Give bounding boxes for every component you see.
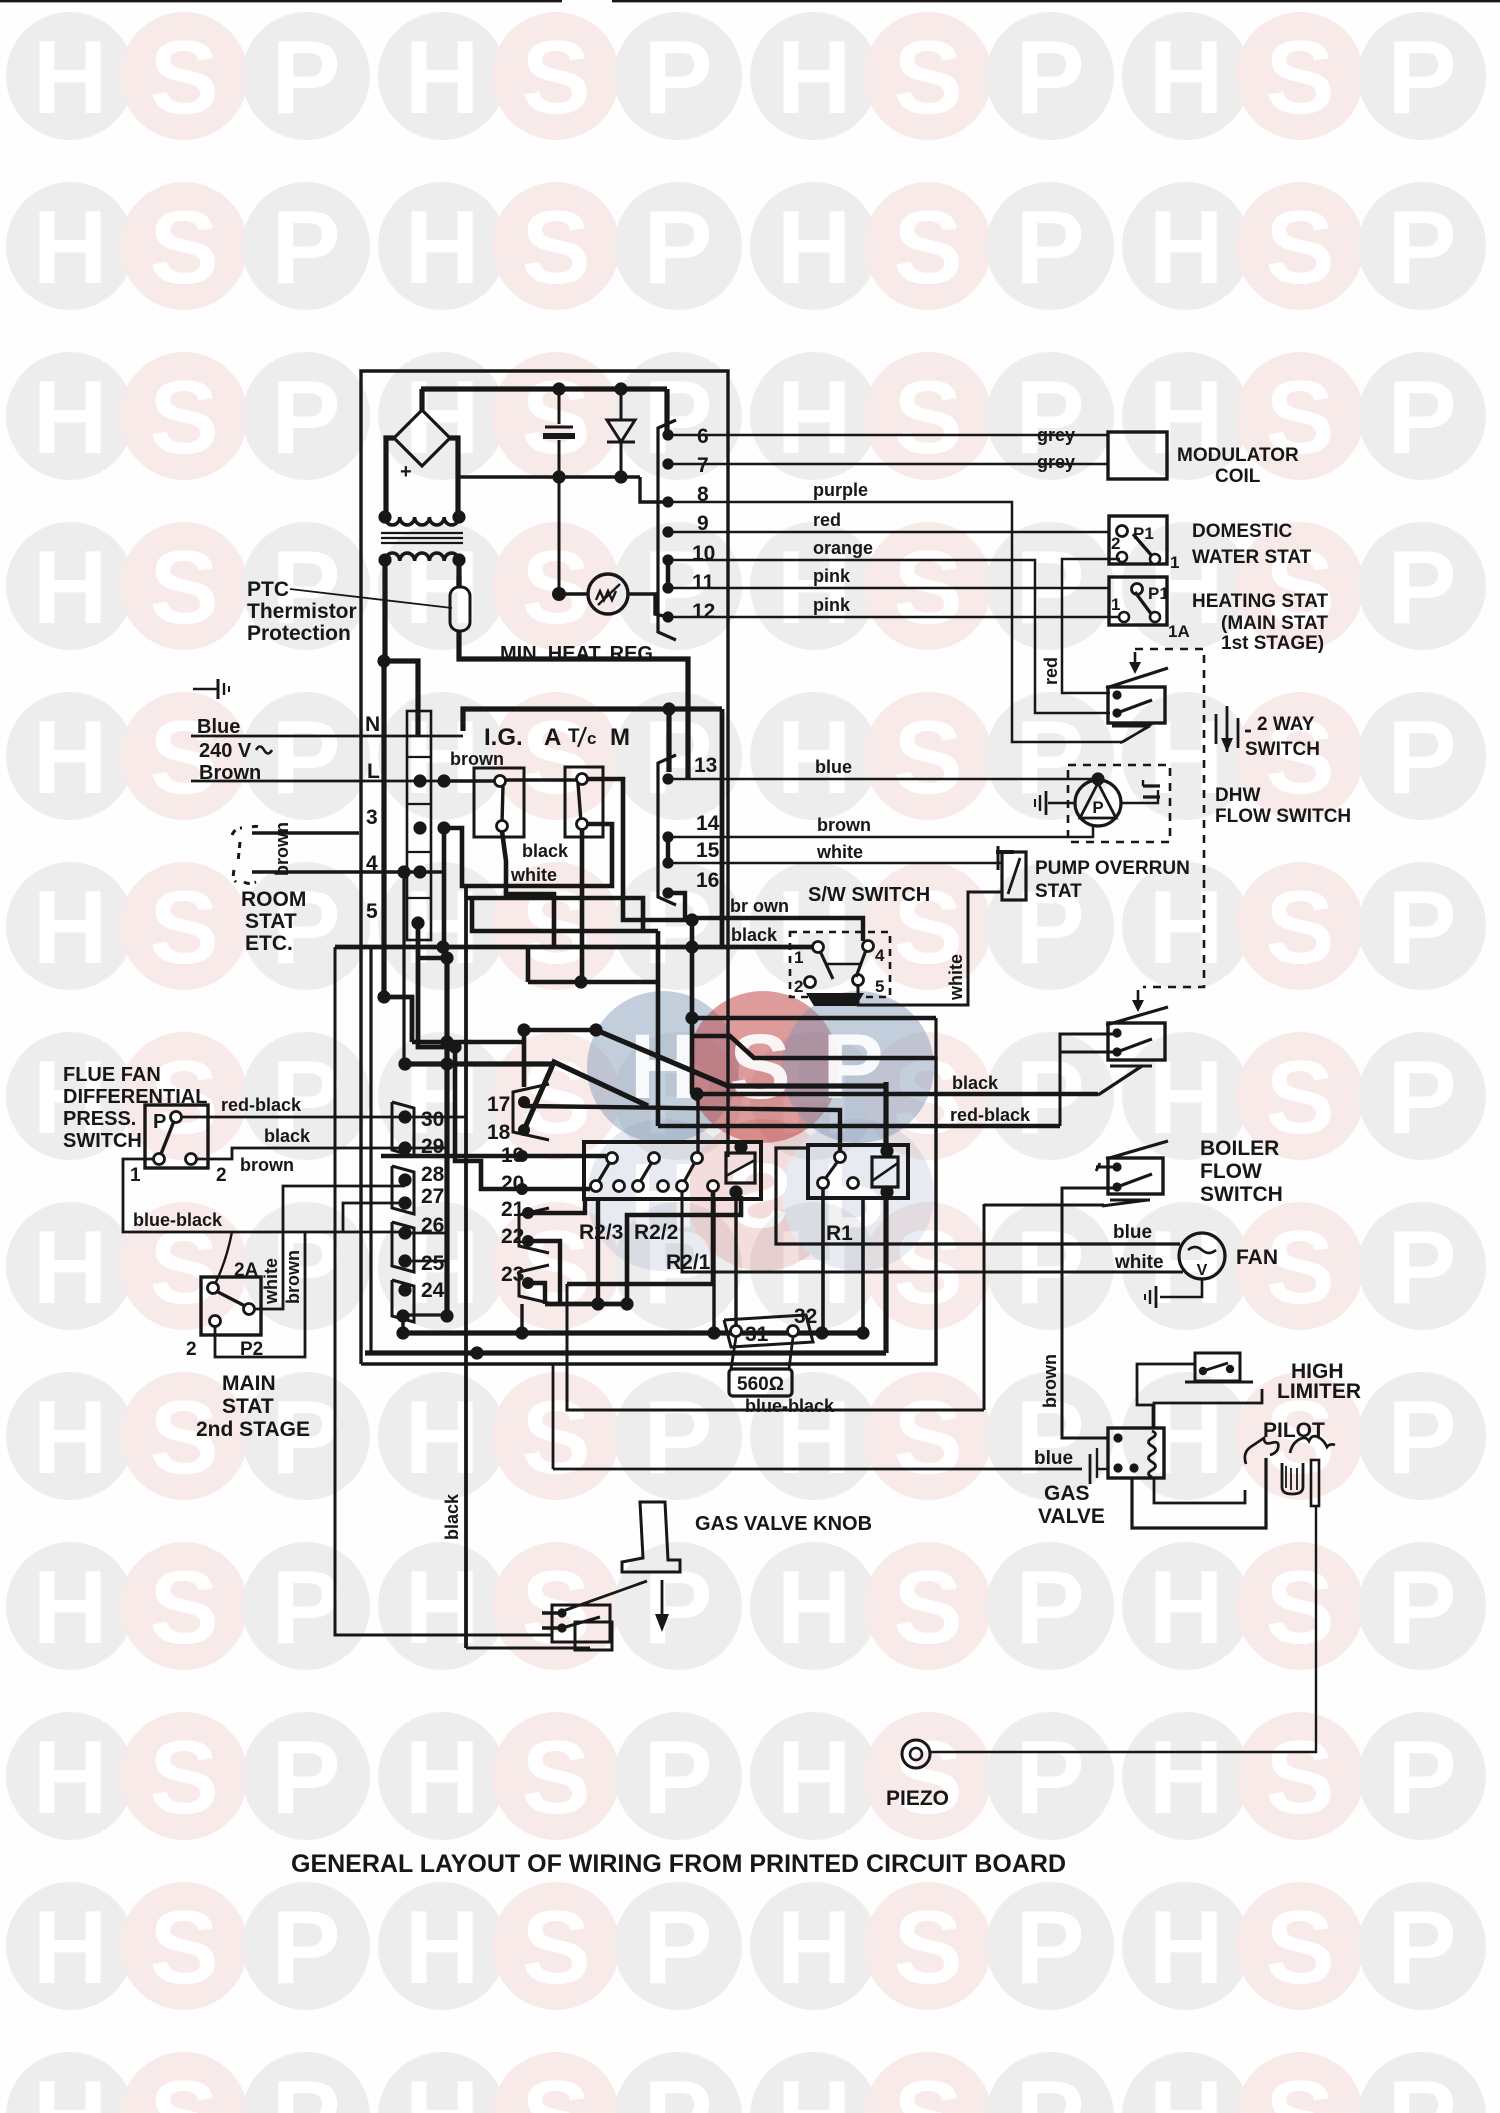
svg-text:23: 23	[501, 1263, 524, 1286]
svg-text:VALVE: VALVE	[1038, 1505, 1105, 1528]
wire R1 left contact drop	[821, 1188, 825, 1330]
svg-text:P: P	[271, 360, 340, 476]
wire riser x598	[596, 1199, 600, 1304]
svg-text:brown: brown	[272, 822, 292, 876]
node junction (621,389)	[614, 382, 627, 395]
svg-text:17: 17	[487, 1093, 510, 1116]
svg-text:27: 27	[421, 1185, 444, 1208]
pin 19 dot	[516, 1150, 528, 1162]
svg-text:DHW: DHW	[1215, 785, 1260, 806]
svg-text:P: P	[822, 1016, 883, 1118]
wire blue N input	[191, 735, 463, 738]
pin 32 circle	[788, 1326, 799, 1337]
node junction (559,594)	[552, 587, 566, 601]
wire pin19 row	[381, 1154, 606, 1158]
central HSP logo watermark	[587, 991, 934, 1271]
terminal strip	[407, 711, 431, 940]
wire grey pin7 to modulator	[672, 463, 1108, 466]
svg-text:STAT: STAT	[1035, 881, 1082, 902]
svg-text:M: M	[610, 724, 630, 751]
svg-text:H: H	[1148, 870, 1223, 986]
svg-text:H: H	[404, 1890, 479, 2006]
svg-text:1st STAGE): 1st STAGE)	[1221, 633, 1324, 654]
svg-text:560Ω: 560Ω	[737, 1374, 784, 1395]
svg-text:P: P	[643, 1550, 712, 1666]
wire coil R1 riser top	[883, 1082, 888, 1157]
wire red pin9 to stat	[672, 531, 1109, 534]
svg-text:240 V: 240 V	[199, 740, 252, 762]
wire thermocouple to piezo	[930, 1506, 1316, 1752]
pin 21 dot	[522, 1207, 534, 1219]
svg-text:BOILER: BOILER	[1200, 1137, 1279, 1160]
node junction (447,1316)	[440, 1309, 453, 1322]
node junction (477,1353)	[470, 1346, 483, 1359]
connector J3 pins 17-18 bracket	[513, 1084, 549, 1140]
svg-text:18: 18	[487, 1121, 511, 1144]
wire orange pin10	[672, 560, 1110, 713]
svg-text:H: H	[776, 20, 851, 136]
svg-text:P: P	[1387, 1380, 1456, 1496]
node junction (384,997)	[377, 990, 390, 1003]
svg-text:S: S	[149, 1890, 218, 2006]
pin 18 dot	[518, 1124, 530, 1136]
PTC label leader line	[290, 589, 452, 608]
wire diagonal D1	[596, 1030, 884, 1086]
svg-text:PRESS.: PRESS.	[63, 1108, 136, 1130]
node junction (447,958)	[440, 951, 453, 964]
wire row y1064 left	[405, 1061, 554, 1066]
svg-text:P: P	[1387, 190, 1456, 306]
node junction (524,1030)	[517, 1023, 530, 1036]
svg-text:10: 10	[692, 542, 715, 565]
node junction (598,1304)	[591, 1297, 604, 1310]
wire riser x528	[526, 947, 531, 982]
microswitch boiler flow	[1096, 1141, 1168, 1194]
wire high limiter left	[1137, 1364, 1195, 1428]
node junction (559,389)	[552, 382, 565, 395]
wire blue to fan	[776, 1148, 1180, 1244]
wire fan ground	[1160, 1279, 1202, 1297]
wire bus row y1353	[365, 1350, 886, 1355]
wire long drop x335	[335, 947, 552, 1635]
svg-text:brown: brown	[283, 1250, 303, 1304]
svg-text:S: S	[1265, 20, 1334, 136]
capacitor C1	[543, 389, 575, 594]
wire riser x984 to boiler flow	[983, 1204, 986, 1410]
svg-text:blue: blue	[1034, 1448, 1073, 1469]
svg-text:H: H	[32, 2060, 107, 2113]
wire blue riser x553	[552, 1364, 555, 1469]
node junction (447,1064)	[440, 1057, 453, 1070]
svg-text:H: H	[776, 190, 851, 306]
node junction (692,920)	[685, 913, 698, 926]
svg-text:S: S	[521, 1890, 590, 2006]
svg-text:S: S	[1265, 870, 1334, 986]
svg-text:H: H	[404, 190, 479, 306]
svg-text:13: 13	[694, 754, 717, 777]
pin 27 dot	[398, 1196, 411, 1209]
bridge rectifier	[394, 389, 450, 466]
svg-text:MIN. HEAT. REG.: MIN. HEAT. REG.	[500, 643, 659, 665]
wire row y898	[466, 898, 643, 931]
wire pin22 stub	[528, 1241, 560, 1304]
wire pin21 stub	[528, 1199, 585, 1213]
svg-text:PUMP OVERRUN: PUMP OVERRUN	[1035, 858, 1190, 879]
svg-text:H: H	[776, 360, 851, 476]
relay R1 contacts	[818, 1152, 859, 1189]
svg-text:2: 2	[794, 977, 803, 996]
wire to pin8	[640, 477, 668, 502]
wire x522 riser	[520, 1304, 523, 1333]
wire R2/1 top riser	[696, 1094, 699, 1152]
svg-text:14: 14	[696, 812, 720, 835]
wire black riser x722	[720, 709, 725, 947]
wire coil R1 drop	[883, 1192, 888, 1353]
pin 25 dot	[398, 1254, 411, 1267]
svg-text:P: P	[271, 1890, 340, 2006]
svg-text:P: P	[153, 1111, 166, 1133]
svg-text:I.G.: I.G.	[484, 724, 523, 751]
svg-text:H: H	[32, 360, 107, 476]
wire pin20 feed from term5	[455, 1047, 590, 1189]
svg-text:P: P	[1015, 1890, 1084, 2006]
svg-text:P: P	[1015, 1040, 1084, 1156]
DHW flow switch dashed box	[1068, 765, 1170, 842]
gas valve inlet bars	[1090, 1448, 1108, 1484]
wire brown to SW switch	[672, 893, 863, 941]
gas valve knob arrow	[661, 1580, 664, 1622]
svg-text:GAS: GAS	[1044, 1482, 1090, 1505]
wire brown L input	[191, 780, 499, 783]
svg-text:7: 7	[697, 454, 709, 477]
svg-text:S: S	[893, 1550, 962, 1666]
pin 30 dot	[398, 1110, 411, 1123]
svg-text:H: H	[32, 1380, 107, 1496]
room stat dashed symbol	[232, 826, 262, 883]
svg-text:1: 1	[1170, 553, 1179, 572]
svg-text:P: P	[1015, 190, 1084, 306]
svg-text:S: S	[1265, 2060, 1334, 2113]
flue fan switch box	[145, 1105, 208, 1168]
node junction (522,1333)	[515, 1326, 528, 1339]
svg-text:PILOT: PILOT	[1263, 1419, 1325, 1442]
node coil R2 bottom	[729, 1185, 742, 1198]
svg-text:red-black: red-black	[221, 1095, 302, 1115]
svg-text:N: N	[365, 713, 380, 736]
microswitch 2way upper	[1106, 668, 1168, 723]
main bus left	[381, 661, 386, 997]
wire N terminal riser	[384, 661, 418, 736]
relay R2/3 contacts	[591, 1153, 625, 1192]
node junction (420,872)	[413, 865, 426, 878]
svg-text:DOMESTIC: DOMESTIC	[1192, 521, 1293, 542]
svg-text:black: black	[522, 841, 569, 861]
wire transformer secondary right to PTC	[456, 558, 461, 588]
svg-text:grey: grey	[1037, 425, 1075, 445]
svg-text:ETC.: ETC.	[245, 932, 293, 955]
wire N riser to pin13	[463, 709, 722, 731]
microswitch 2way lower	[1106, 1007, 1168, 1060]
wire black row y1094 to boiler flow	[692, 1092, 1098, 1096]
svg-text:white: white	[816, 842, 863, 862]
pin 23 dot	[522, 1277, 534, 1289]
domestic water stat	[1109, 516, 1167, 564]
wire boiler flow exit diagonal	[1110, 1199, 1150, 1202]
wire diagonal D2 from pin18	[524, 1062, 648, 1130]
svg-text:P: P	[1015, 1720, 1084, 1836]
pilot burner	[1245, 1436, 1335, 1506]
wire pin17 riser	[522, 1030, 527, 1087]
svg-text:2: 2	[186, 1339, 197, 1360]
wire x404 drop	[402, 872, 405, 1064]
svg-text:24: 24	[421, 1279, 445, 1302]
wire row y1042	[412, 1040, 524, 1045]
wire row y1304	[545, 1302, 627, 1307]
wire microswitch2 exit diagonal	[1110, 1065, 1152, 1068]
svg-text:S: S	[1265, 1890, 1334, 2006]
svg-text:V: V	[1197, 1262, 1208, 1279]
svg-text:FLOW: FLOW	[1200, 1160, 1262, 1183]
SW switch contacts	[805, 941, 874, 988]
svg-text:1: 1	[1111, 595, 1120, 614]
svg-text:MAIN: MAIN	[222, 1372, 276, 1395]
node junction (420,781)	[413, 774, 426, 787]
wire purple diagonal to switch	[1123, 724, 1152, 742]
wire pin13 drop	[666, 709, 671, 772]
svg-text:P: P	[643, 1380, 712, 1496]
svg-text:H: H	[32, 20, 107, 136]
svg-text:P: P	[1387, 1210, 1456, 1326]
svg-text:15: 15	[696, 839, 720, 862]
wire term5 drop	[418, 923, 455, 1047]
svg-text:H: H	[1148, 1550, 1223, 1666]
wire pin27 feed	[343, 1203, 405, 1232]
high limiter	[1185, 1353, 1253, 1382]
wire red-black row	[658, 1124, 1060, 1128]
svg-text:29: 29	[421, 1135, 444, 1158]
svg-text:S: S	[1265, 1720, 1334, 1836]
svg-text:P: P	[1387, 1550, 1456, 1666]
wire red stat to 2way switch	[1062, 559, 1120, 693]
svg-text:H: H	[776, 1890, 851, 2006]
wire pink pin12	[672, 616, 1120, 619]
svg-text:2: 2	[216, 1165, 227, 1186]
svg-text:H: H	[1148, 190, 1223, 306]
svg-text:S: S	[521, 360, 590, 476]
wire R1 right area drop	[861, 1198, 865, 1330]
SW switch rocker	[806, 993, 864, 1006]
svg-text:R2/3: R2/3	[579, 1221, 623, 1244]
svg-text:P: P	[271, 1550, 340, 1666]
ground symbol (mains)	[193, 679, 229, 699]
node junction (444,828)	[437, 821, 450, 834]
pin 29 dot	[398, 1141, 411, 1154]
svg-text:P: P	[1387, 870, 1456, 986]
svg-text:S: S	[521, 1720, 590, 1836]
svg-text:SWITCH: SWITCH	[1245, 739, 1320, 760]
wire 2A lead	[215, 1232, 232, 1284]
wire top bus y389	[421, 386, 667, 391]
wire white main stat	[255, 1186, 405, 1309]
svg-text:28: 28	[421, 1163, 445, 1186]
wire boiler flow lower contact	[1062, 1188, 1117, 1438]
wire riser x658	[656, 931, 661, 1126]
wire black row y947	[335, 945, 818, 950]
svg-text:4: 4	[875, 946, 885, 965]
relay coil R2	[726, 1153, 755, 1183]
node junction (404,872)	[397, 865, 410, 878]
svg-text:black: black	[952, 1073, 999, 1093]
wire inner vertical x371	[369, 947, 372, 1353]
svg-text:H: H	[1148, 1890, 1223, 2006]
svg-text:2: 2	[1111, 534, 1120, 553]
wire IG black drop	[502, 831, 554, 947]
svg-text:white: white	[946, 954, 966, 1001]
node junction (714,1333)	[707, 1326, 720, 1339]
svg-text:P: P	[1387, 530, 1456, 646]
svg-text:P: P	[1387, 20, 1456, 136]
wire room stat lower	[252, 870, 444, 873]
svg-text:H: H	[32, 700, 107, 816]
svg-text:H: H	[404, 1720, 479, 1836]
top border line	[0, 0, 562, 2]
svg-text:black: black	[442, 1493, 462, 1540]
svg-text:H: H	[32, 1210, 107, 1326]
wire grey pin6 to modulator	[672, 434, 1108, 437]
svg-text:blue-black: blue-black	[745, 1396, 835, 1416]
connector pin 23 bracket	[519, 1265, 549, 1303]
wire bridge output row y477	[456, 475, 640, 478]
svg-text:Thermistor: Thermistor	[247, 600, 357, 623]
svg-text:PTC: PTC	[247, 578, 289, 601]
svg-text:FLUE FAN: FLUE FAN	[63, 1064, 161, 1086]
svg-text:GAS VALVE KNOB: GAS VALVE KNOB	[695, 1513, 872, 1535]
wire pilot pipe outer	[1132, 1458, 1266, 1528]
wire row y1018	[692, 1016, 936, 1021]
transformer T1	[378, 510, 465, 566]
wire bus x384 bottom	[384, 997, 412, 1042]
svg-text:A: A	[544, 724, 561, 751]
pin 28 dot	[398, 1173, 411, 1186]
svg-text:2nd STAGE: 2nd STAGE	[196, 1418, 310, 1441]
wire row y931	[472, 898, 658, 931]
svg-text:S: S	[149, 20, 218, 136]
svg-text:31: 31	[745, 1323, 769, 1346]
A/M switch	[565, 767, 603, 837]
svg-text:S: S	[893, 190, 962, 306]
wire blue-black loop	[123, 1159, 305, 1232]
svg-text:FAN: FAN	[1236, 1246, 1278, 1269]
pin 22 dot	[522, 1235, 534, 1247]
svg-text:S: S	[521, 190, 590, 306]
node junction (403,1316)	[396, 1309, 409, 1322]
svg-text:SWITCH: SWITCH	[63, 1130, 142, 1152]
svg-text:brown: brown	[240, 1155, 294, 1175]
svg-text:2 WAY: 2 WAY	[1257, 714, 1315, 735]
wire PTC to pin13 column	[459, 642, 688, 778]
pump right contacts	[1121, 780, 1160, 803]
diode D1	[607, 389, 635, 477]
node pump top	[1091, 772, 1104, 785]
connector pins 31-32 bracket	[724, 1315, 813, 1347]
svg-text:P: P	[643, 190, 712, 306]
svg-text:blue: blue	[815, 757, 852, 777]
svg-text:S: S	[893, 2060, 962, 2113]
wire pin23 stub	[528, 1283, 545, 1304]
ground symbol (fan)	[1145, 1286, 1156, 1308]
relay box R2	[584, 1142, 761, 1199]
wire coil R2 lower loop	[627, 1196, 741, 1304]
svg-text:MODULATOR: MODULATOR	[1177, 445, 1299, 466]
wire white to fan	[682, 1192, 1183, 1272]
svg-text:P: P	[1015, 1210, 1084, 1326]
wire connector bottom stub	[401, 1316, 404, 1333]
pump P symbol	[1075, 780, 1121, 826]
svg-text:P: P	[271, 190, 340, 306]
svg-text:H: H	[32, 530, 107, 646]
wire pin26 row right	[405, 1232, 447, 1235]
svg-text:30: 30	[421, 1108, 444, 1131]
svg-text:pink: pink	[813, 566, 851, 586]
gas valve knob	[622, 1502, 680, 1572]
microswitch gas valve knob	[542, 1605, 612, 1650]
connector pin10-11 link	[666, 560, 671, 588]
pin 26 dot	[398, 1226, 411, 1239]
svg-text:H: H	[776, 1550, 851, 1666]
wire purple pin8	[672, 502, 1123, 742]
svg-text:P: P	[1387, 2060, 1456, 2113]
node junction (455,1047)	[448, 1040, 461, 1053]
SW switch dashed box	[790, 932, 890, 997]
svg-text:32: 32	[794, 1305, 817, 1328]
svg-text:WATER STAT: WATER STAT	[1192, 547, 1312, 568]
wire coil R2 bottom drop	[734, 1192, 737, 1330]
wire riser x936	[934, 1018, 937, 1060]
wire brown pin14 to pump bottom	[672, 826, 1093, 837]
wire room stat upper	[252, 831, 359, 834]
pin 20 dot	[516, 1183, 528, 1195]
svg-text:S: S	[1265, 190, 1334, 306]
node junction (621,477)	[614, 470, 627, 483]
node junction (444,781)	[437, 774, 450, 787]
svg-text:P: P	[1015, 2060, 1084, 2113]
wire thermistor row	[559, 592, 588, 595]
connector J1 pins 6-12 bracket	[658, 420, 676, 640]
wire row 31-32	[403, 1330, 864, 1335]
pin 24 dot	[398, 1283, 411, 1296]
svg-text:S: S	[149, 190, 218, 306]
wire row y1030	[524, 1028, 598, 1033]
2 way switch arrow 1	[1134, 652, 1137, 668]
svg-text:brown: brown	[817, 815, 871, 835]
wire thermistor to pin12	[628, 594, 668, 617]
svg-text:pink: pink	[813, 595, 851, 615]
PTC thermistor	[450, 576, 470, 642]
svg-text:brown: brown	[1040, 1354, 1060, 1408]
svg-text:H: H	[32, 1720, 107, 1836]
wire 2way sw lower exit diagonal	[1112, 725, 1150, 728]
wire R2/1 contact drop	[567, 1192, 713, 1284]
connector pins 21-22 bracket	[519, 1208, 549, 1253]
svg-text:DIFFERENTIAL: DIFFERENTIAL	[63, 1086, 207, 1108]
svg-text:16: 16	[696, 869, 719, 892]
svg-text:S: S	[729, 1016, 790, 1118]
wire black flue to pin29	[197, 1148, 447, 1159]
node junction (443,947)	[436, 940, 449, 953]
connector J4 brackets 30-24	[392, 1102, 414, 1322]
svg-text:H: H	[1148, 1720, 1223, 1836]
svg-text:red-black: red-black	[950, 1105, 1031, 1125]
